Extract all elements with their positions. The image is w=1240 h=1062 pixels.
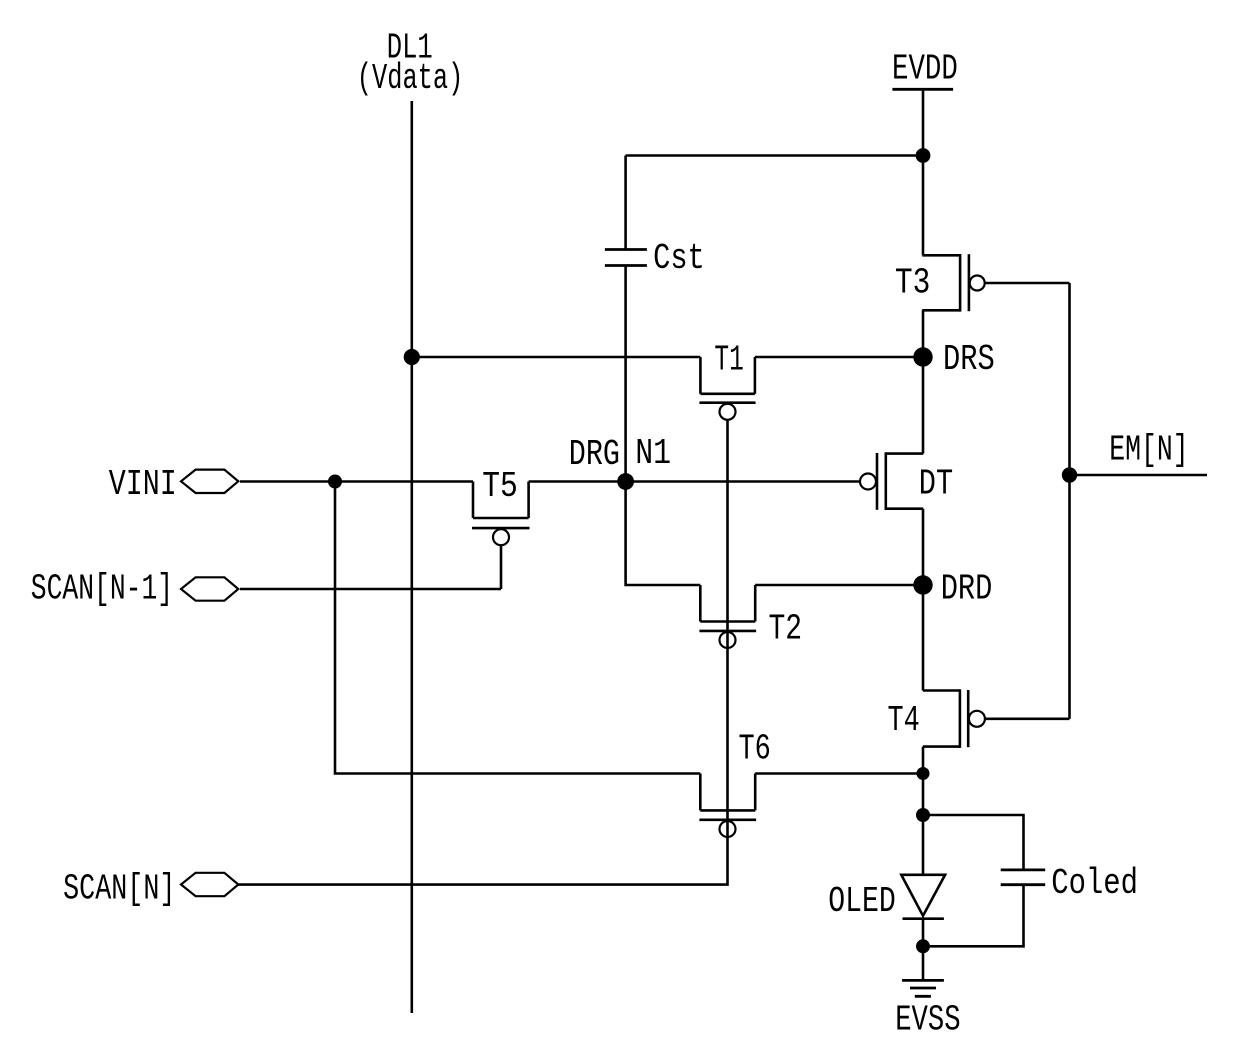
svg-text:DRD: DRD: [941, 569, 993, 610]
wire SCAN[N-1] to T5 gate: [240, 588, 501, 591]
wire row B right: T1 to DRS: [755, 356, 923, 359]
junction data line node: [404, 349, 420, 365]
wire row A: Cst top to EVDD line: [626, 154, 923, 157]
svg-text:SCAN[N]: SCAN[N]: [63, 869, 175, 910]
wire row F right: T6 to anode line: [755, 772, 923, 775]
svg-text:DRS: DRS: [943, 339, 995, 380]
junction DRD node: [913, 575, 932, 594]
svg-text:DRG: DRG: [569, 434, 620, 475]
diode OLED: [901, 875, 945, 919]
wire gate chain SCAN[N] to T1/T2/T6 gates: [238, 420, 728, 885]
wire anode to Coled top: [923, 815, 1024, 870]
wire VINI to T5: [240, 480, 473, 483]
junction EVDD node: [916, 148, 931, 163]
svg-text:DT: DT: [919, 464, 953, 505]
svg-text:OLED: OLED: [828, 881, 896, 922]
capacitor Coled: [1001, 870, 1045, 885]
wire VINI branch down to T6 source: [335, 482, 700, 774]
wire T4 drain down to OLED: [922, 747, 925, 875]
transistor DT: [860, 452, 923, 510]
svg-text:T3: T3: [895, 263, 930, 303]
wire T3 gate to EM line: [985, 282, 1070, 285]
svg-text:EVDD: EVDD: [892, 48, 958, 90]
junction cathode node: [916, 939, 930, 953]
junction EM node: [1062, 467, 1077, 482]
svg-text:T4: T4: [888, 701, 920, 742]
junction N1 node: [617, 473, 634, 490]
wire EVDD stem to T3 source: [922, 89, 925, 255]
capacitor Cst: [605, 250, 647, 266]
svg-text:VINI: VINI: [109, 464, 177, 505]
power symbol EVDD: [892, 48, 958, 90]
wire Cst bottom through N1 to T2 source: [626, 266, 701, 586]
wire OLED cathode to ground: [922, 919, 925, 981]
wire T5 gate stem: [500, 545, 503, 589]
wire data line DL1 vertical: [410, 101, 413, 1013]
svg-text:EVSS: EVSS: [895, 999, 960, 1041]
svg-text:Coled: Coled: [1051, 863, 1138, 904]
ground symbol EVSS: [902, 980, 944, 996]
transistor T3: [922, 254, 984, 312]
input flag SCAN[N]: [63, 869, 238, 910]
wire DT drain to T4 source: [922, 509, 925, 691]
wire Coled bottom to cathode node: [923, 885, 1024, 947]
wire EM vertical line: [1068, 283, 1071, 719]
wire Cst top stem: [624, 156, 627, 250]
transistor T2: [699, 585, 756, 648]
junction OLED anode node: [916, 808, 930, 822]
junction VINI branch node: [328, 475, 342, 489]
wire row B left: data line to T1: [412, 356, 701, 359]
svg-text:Cst: Cst: [653, 238, 705, 279]
net label DL1 (Vdata): [357, 29, 464, 100]
wire T3 drain to DT source: [922, 310, 925, 453]
wire row E right: T2 to DRD: [755, 584, 923, 587]
wire T4 gate to EM line: [985, 717, 1070, 720]
svg-text:T1: T1: [714, 340, 743, 381]
wire EM[N] output: [1070, 474, 1208, 477]
svg-text:T5: T5: [482, 467, 518, 507]
wire T5 drain to DT gate: [529, 480, 861, 483]
transistor T4: [923, 689, 985, 748]
junction DRS node: [913, 347, 932, 366]
svg-text:EM[N]: EM[N]: [1109, 431, 1188, 471]
transistor T5: [472, 482, 530, 546]
svg-text:T6: T6: [739, 729, 771, 770]
transistor T1: [699, 357, 755, 420]
svg-text:N1: N1: [635, 433, 671, 474]
input flag VINI: [109, 464, 239, 505]
junction T6 drain node: [917, 767, 930, 780]
svg-text:(Vdata): (Vdata): [357, 59, 464, 99]
svg-text:T2: T2: [769, 608, 803, 649]
input flag SCAN[N-1]: [31, 570, 239, 610]
svg-text:SCAN[N-1]: SCAN[N-1]: [31, 570, 173, 610]
transistor T6: [699, 774, 756, 838]
